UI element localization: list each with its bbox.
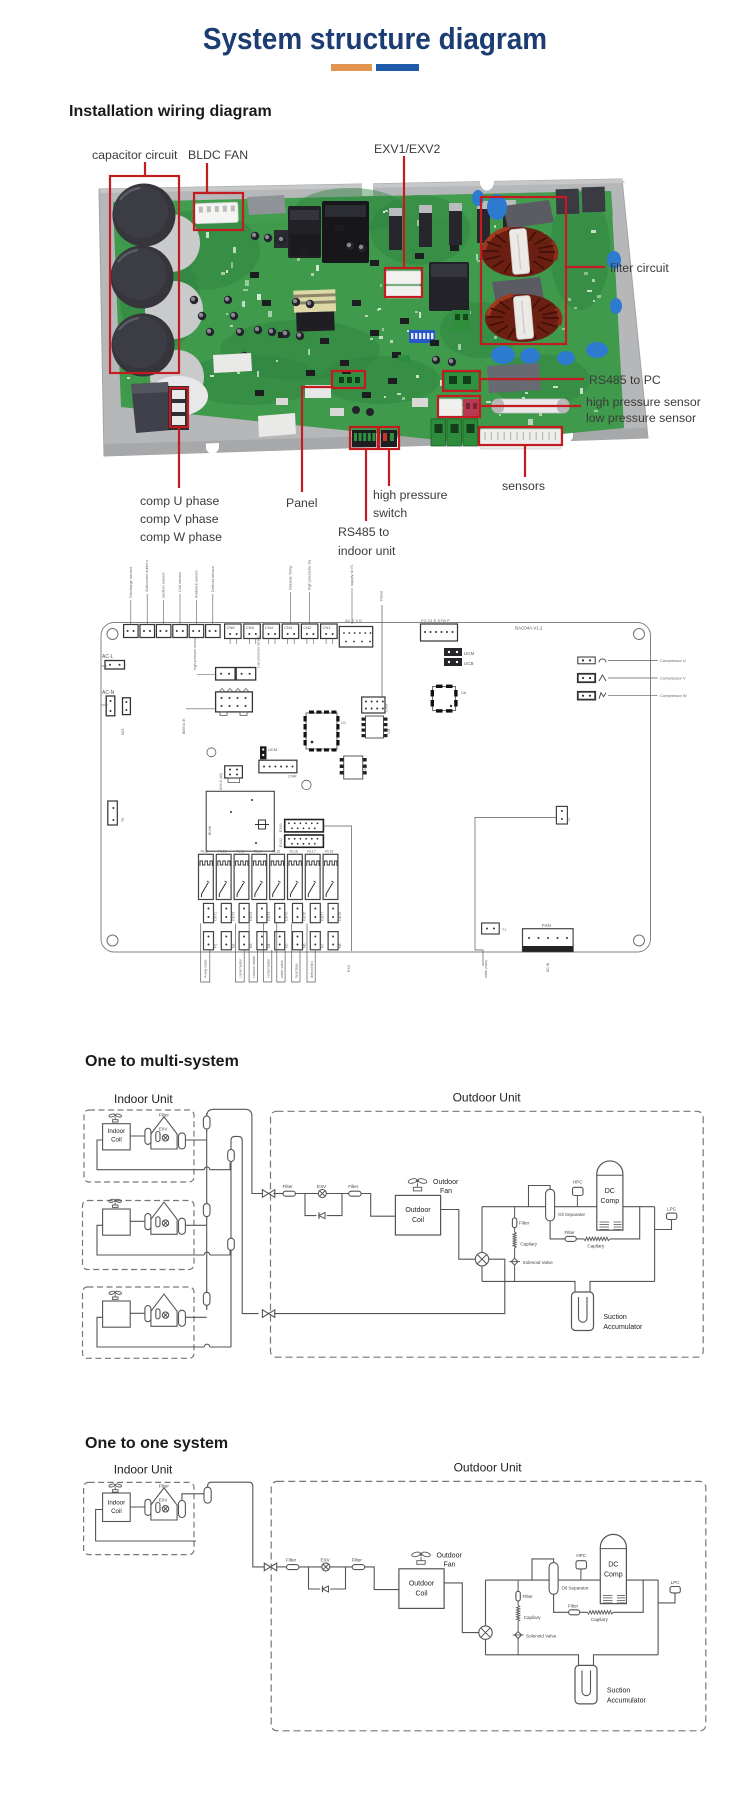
SOIC chip U4 [340,756,367,779]
label comp W phase [140,530,222,544]
pressure sensor connectors [438,399,480,417]
connector CN1 [321,624,338,644]
indoor filter capsule left [145,1306,151,1322]
svg-text:Outdoor: Outdoor [405,1207,431,1214]
svg-text:RL18: RL18 [325,850,333,854]
leader line RS485 to PC [480,378,584,380]
svg-text:BLDC FAN: BLDC FAN [188,148,248,162]
gas line to 4way [274,1259,505,1313]
svg-text:crank heater: crank heater [239,958,243,978]
gray connector block [247,195,286,215]
svg-text:FG V1 E S7W P: FG V1 E S7W P [421,618,450,623]
oil separator loop [529,1186,551,1207]
branch capillary [517,1605,542,1621]
board version text [515,626,543,631]
title underline orange bar [331,64,372,71]
svg-text:CN9: CN9 [384,703,389,712]
indoor coil [103,1209,131,1235]
svg-text:high pressure sensor: high pressure sensor [586,395,701,409]
DC compressor [600,1534,626,1603]
svg-text:Fan: Fan [444,1561,456,1568]
outdoor coil [399,1569,444,1609]
svg-text:EXV2: EXV2 [279,838,283,847]
outdoor fan [411,1551,462,1568]
shutoff valve gas [262,1310,274,1318]
annotation box sensors [479,427,562,445]
oil filter [568,1603,580,1614]
branch filter [512,1218,529,1228]
label Panel [286,496,317,510]
svg-text:Compressor V: Compressor V [660,676,686,681]
indoor fan [109,1199,122,1208]
suction accumulator [572,1292,643,1331]
label RS485 to [338,525,389,539]
connector OUT6 [293,903,307,922]
connector compressor V [578,674,686,682]
svg-text:CN3: CN3 [284,625,293,630]
expansion valve housing [151,1113,177,1150]
indoor unit 1 dashed box [84,1110,194,1182]
svg-text:Capilary: Capilary [591,1617,609,1622]
svg-text:N05: N05 [121,729,125,735]
filter 1 [283,1184,296,1196]
filter coil block 1 gray [503,200,554,229]
fuse tube [492,399,569,413]
connector top right [421,618,458,641]
transistor row [389,200,516,250]
shutoff valve oto [264,1563,276,1571]
svg-text:Compressor U: Compressor U [660,658,686,663]
svg-text:Comp: Comp [600,1198,619,1205]
svg-text:CN1: CN1 [323,625,332,630]
svg-text:OUT8: OUT8 [338,912,342,921]
svg-text:Filter: Filter [283,1184,294,1189]
green terminal row [431,419,478,446]
svg-text:Outdoor: Outdoor [433,1179,459,1186]
AC-N connectors [101,690,130,735]
svg-text:Ambient sensor: Ambient sensor [193,570,198,598]
indoor dashed box oto [84,1482,194,1554]
pcb shading patches [120,188,610,406]
wire EXV out [323,826,351,972]
heading one to one [85,1435,228,1452]
SOIC chip U3 [362,716,392,738]
EXV valve [317,1184,327,1198]
label sensors [502,479,545,493]
electrolytic capacitor C3 [112,314,175,377]
connector N7 [310,932,324,950]
svg-text:CN2: CN2 [303,625,312,630]
svg-text:EXV: EXV [347,964,351,972]
svg-text:U1: U1 [341,720,347,725]
svg-text:Indoor Unit: Indoor Unit [114,1092,173,1106]
indoor fan [109,1291,122,1300]
svg-text:N1: N1 [214,943,218,948]
svg-text:CN5: CN5 [246,625,255,630]
svg-text:Solenoid Valve: Solenoid Valve [526,1633,557,1638]
annotation box comp phases [170,388,188,427]
svg-text:heat tape: heat tape [295,963,299,978]
RS485 green connector [444,372,479,390]
label outdoor unit [453,1091,522,1105]
svg-text:T1: T1 [502,928,506,932]
filter coil block 2 gray [492,277,544,304]
svg-text:UCM: UCM [464,651,474,656]
outdoor fan [408,1178,459,1195]
green 2p terminal [452,310,470,331]
connector CN6 [225,624,242,644]
svg-text:RL16: RL16 [290,850,298,854]
expansion valve housing [151,1294,177,1326]
DC compressor [597,1161,623,1230]
via circles [207,748,311,790]
connector OUT2 [221,903,235,922]
svg-text:comp W phase: comp W phase [140,530,222,544]
svg-text:HPC: HPC [576,1553,586,1558]
svg-text:RL14: RL14 [254,850,262,854]
relay RL15 [270,850,285,900]
svg-text:AC E V D: AC E V D [345,618,362,623]
pipe liquid into outdoor [277,1567,399,1590]
svg-text:Filter: Filter [352,1557,363,1562]
label BLDC FAN [188,148,248,162]
output wire loop 5 [277,924,285,983]
EXV2 connector [279,835,323,847]
svg-text:BMS to IK: BMS to IK [182,718,186,734]
svg-text:Capilary: Capilary [587,1244,605,1249]
connector compressor W [578,692,687,700]
BMS grid connector [182,688,252,734]
svg-text:Filter: Filter [519,1221,530,1226]
EXV white connectors [385,271,421,298]
oil capillary [587,1611,613,1622]
svg-text:BAC04A V1.2: BAC04A V1.2 [515,626,543,631]
indoor coil [103,1124,131,1150]
svg-text:UCB: UCB [464,661,474,666]
svg-text:U3: U3 [386,728,391,734]
relay RL11 [199,850,214,900]
title underline blue bar [376,64,419,71]
svg-text:RL12: RL12 [218,850,226,854]
branch capillary [513,1232,538,1248]
label filter circuit [610,261,669,275]
branch filter [516,1591,533,1601]
oil capillary [584,1237,610,1248]
svg-text:RL15: RL15 [272,850,280,854]
schematic board outline [101,623,651,953]
filter 1 [286,1557,299,1569]
svg-text:water valve: water valve [280,960,284,978]
svg-text:BU/W: BU/W [208,825,212,835]
indoor filter capsule right [179,1310,186,1326]
indoor unit 2 dashed box [83,1201,195,1270]
svg-text:Fan: Fan [440,1188,452,1195]
chip U6 [431,685,467,713]
small electrolytic caps [190,232,456,366]
connector compressor U [578,657,686,664]
label high pressure [373,488,448,502]
connector CN5 [244,624,260,644]
svg-text:DC: DC [605,1188,615,1195]
svg-text:Capilary: Capilary [524,1615,542,1620]
connector OUT5 [275,903,289,922]
EXV valve [321,1557,331,1571]
svg-text:OUT3: OUT3 [249,912,253,921]
pipe coupler G1 [228,1147,235,1165]
relay cluster [274,201,369,263]
4-way valve [475,1253,488,1266]
UCM small black [260,746,277,759]
output wire loop 3 [249,924,257,983]
indoor fan oto [109,1483,122,1492]
connector FAN [523,923,574,972]
svg-text:sensors: sensors [502,479,545,493]
svg-text:AX6-6 (A5): AX6-6 (A5) [219,773,223,790]
connector CN2 [301,554,318,644]
indoor pipes oto [96,1494,204,1541]
transformer block [206,791,274,851]
svg-text:N6: N6 [303,943,307,948]
panel green connector [336,374,362,386]
PCB photo mounting plate [99,179,648,456]
label indoor unit oto [114,1463,173,1477]
bypass check valve loop [309,1567,346,1589]
4-way valve [479,1626,492,1639]
svg-text:indoor unit: indoor unit [338,544,396,558]
pipe coupler G2 [228,1235,235,1253]
label switch [373,506,407,520]
filter capsule left oto [145,1499,151,1515]
EXV1 connector [279,820,323,833]
svg-text:T2: T2 [567,818,571,822]
svg-text:OUT1: OUT1 [214,912,218,921]
hps connector [381,430,397,447]
connector CN-T3 [156,572,171,638]
white stickers [213,353,296,437]
svg-text:Capilary: Capilary [520,1242,538,1247]
indoor pipes [97,1136,230,1170]
leader line pressure sensors [480,405,581,407]
electrolytic capacitor C1 [113,184,176,247]
connector T1 [482,923,507,934]
leader line EXV1/EXV2 [403,156,405,268]
relay RL16 [288,850,303,900]
page title [38,21,713,57]
svg-text:RL17: RL17 [307,850,315,854]
svg-text:Panel: Panel [379,591,384,601]
green PCB board [113,191,624,443]
svg-text:Indoor: Indoor [108,1500,126,1507]
label outdoor unit oto [454,1461,523,1475]
svg-text:Filter: Filter [159,1113,170,1118]
wire panel down [379,591,384,697]
svg-text:Outdoor Unit: Outdoor Unit [454,1461,523,1475]
svg-text:U6: U6 [461,690,467,695]
output wire loop 7 [307,924,315,983]
svg-text:CN6: CN6 [227,625,236,630]
svg-text:EXV: EXV [317,1184,327,1189]
svg-text:N3: N3 [249,943,253,948]
svg-text:UCM: UCM [268,747,277,752]
svg-text:OUT2: OUT2 [231,912,235,921]
svg-text:Filter: Filter [348,1184,359,1189]
svg-text:high pressure sensor: high pressure sensor [193,636,197,670]
oil separator [546,1189,586,1221]
label EXV1/EXV2 [374,142,440,156]
oil separator [549,1563,589,1595]
svg-text:defrost fan: defrost fan [310,961,314,978]
svg-text:switch: switch [373,506,407,520]
svg-text:high pressure: high pressure [373,488,448,502]
BLDC fan white connector [195,202,239,223]
svg-text:Solenoid Valve: Solenoid Valve [523,1260,554,1265]
gas trunk riser [231,1136,259,1347]
svg-text:Filter: Filter [159,1484,170,1489]
svg-text:Coil: Coil [412,1217,425,1224]
relay RL14 [252,850,267,900]
svg-text:capacitor circuit: capacitor circuit [92,148,178,162]
top-right dark caps [556,187,606,215]
indoor coil oto [103,1493,131,1522]
leader line capacitor circuit [144,162,146,176]
indoor coil [103,1301,131,1327]
oil return line [550,1207,640,1239]
annotation box RS485 to indoor unit [350,427,378,449]
svg-text:Low pressure sensor: Low pressure sensor [257,635,261,668]
connector N4 [257,932,271,950]
filter toroid coil 1 [481,227,557,277]
annotation box high pressure switch [379,427,399,449]
AC-L connector [101,654,125,669]
leader line BLDC fan [206,163,208,193]
svg-text:Accumulator: Accumulator [603,1324,643,1331]
svg-text:CNR: CNR [288,774,297,779]
indoor filter capsule left [145,1128,151,1144]
svg-text:comp U phase: comp U phase [140,494,219,508]
silkscreen flecks [127,209,601,425]
leader line sensors [524,445,526,477]
outdoor unit dashed box [271,1111,704,1357]
svg-text:comp heater: comp heater [267,958,271,978]
annotation box filter circuit [481,197,566,344]
comp phase connector strip [168,386,189,430]
silver capacitor reflections [142,214,208,416]
output wire loop 4 [264,924,272,983]
pipe coil to 4way [441,1210,476,1260]
annotation box BLDC fan [194,193,243,230]
indoor filter capsule left [145,1214,151,1230]
label low pressure sensor [586,411,696,425]
sensors long connector [480,429,561,449]
svg-text:Outdoor: Outdoor [437,1552,463,1559]
svg-text:water pump: water pump [484,960,488,978]
annotation box panel [332,371,365,388]
svg-text:high pressure switch: high pressure switch [307,560,312,590]
svg-text:N5: N5 [285,943,289,948]
svg-text:Coil: Coil [415,1590,428,1597]
connector N8 [328,932,342,950]
label comp V phase [140,512,219,526]
pressure sensor connector [193,635,261,680]
indoor fan [109,1113,122,1122]
LPC sensor [670,1580,680,1593]
transformer T1 yellow [293,289,336,331]
svg-text:comp V phase: comp V phase [140,512,219,526]
connector CN-T2 [140,549,155,637]
svg-text:EXV: EXV [321,1557,331,1562]
svg-text:Filter: Filter [568,1603,579,1608]
svg-text:T5: T5 [121,818,125,822]
relay RL17 [305,850,320,900]
RS485 indoor connector [352,430,376,447]
svg-text:CN4: CN4 [265,625,274,630]
solenoid branch [517,1580,519,1655]
section heading: Installation wiring diagram [69,103,272,121]
svg-text:Outdoor Unit: Outdoor Unit [453,1091,522,1105]
svg-text:Oil Separator: Oil Separator [558,1212,586,1217]
liquid trunk riser [207,1109,263,1310]
indoor filter capsule right [179,1218,186,1234]
svg-text:EXV1: EXV1 [279,823,283,832]
indoor filter capsule right [179,1133,186,1149]
svg-text:Filter: Filter [286,1557,297,1562]
indoor unit 3 dashed box [83,1287,195,1358]
svg-text:Outdoor: Outdoor [409,1580,435,1587]
oil return line [554,1580,644,1612]
svg-text:supply to IN: supply to IN [349,565,354,586]
shutoff valve liquid [262,1190,274,1198]
connector OUT3 [239,903,253,922]
coupler oto [204,1487,211,1503]
svg-text:Indoor: Indoor [108,1128,126,1135]
bottom suction line [486,1639,659,1665]
svg-text:RS485 to PC: RS485 to PC [589,373,661,387]
svg-text:Coil: Coil [111,1508,122,1515]
svg-text:HPC: HPC [573,1180,583,1185]
connector CN-T1 [124,566,139,637]
relay RL13 [234,850,249,900]
plate edge notches [206,178,652,454]
connector CN-T4 [173,571,188,637]
dark block near fuse [487,363,541,393]
svg-text:OUT7: OUT7 [320,912,324,921]
svg-text:RL11: RL11 [201,850,209,854]
connector N1 [204,932,218,950]
label comp U phase [140,494,219,508]
output wire loop 6 [292,924,300,983]
blue capacitors [472,190,622,365]
svg-text:Indoor Unit: Indoor Unit [114,1463,173,1477]
connector OUT8 [328,903,342,922]
indoor pipes [97,1313,231,1347]
svg-text:AC-N: AC-N [102,690,115,696]
mounting holes [107,629,645,947]
svg-text:One to one system: One to one system [85,1435,228,1452]
annotation box RS485 to PC [443,371,480,391]
CNR connector [259,760,297,778]
connector OUT4 [257,903,271,922]
black relay square [429,262,469,311]
solenoid valve [509,1258,553,1265]
svg-text:filter circuit: filter circuit [610,261,669,275]
svg-text:U4: U4 [362,766,367,772]
LPC sensor [667,1207,677,1220]
pipe coupler L2 [203,1201,210,1220]
svg-text:Filter: Filter [523,1594,534,1599]
svg-text:Subcooler outlet sensor: Subcooler outlet sensor [144,560,149,592]
pipe coupler L3 [203,1289,210,1308]
connector N6 [293,932,307,950]
